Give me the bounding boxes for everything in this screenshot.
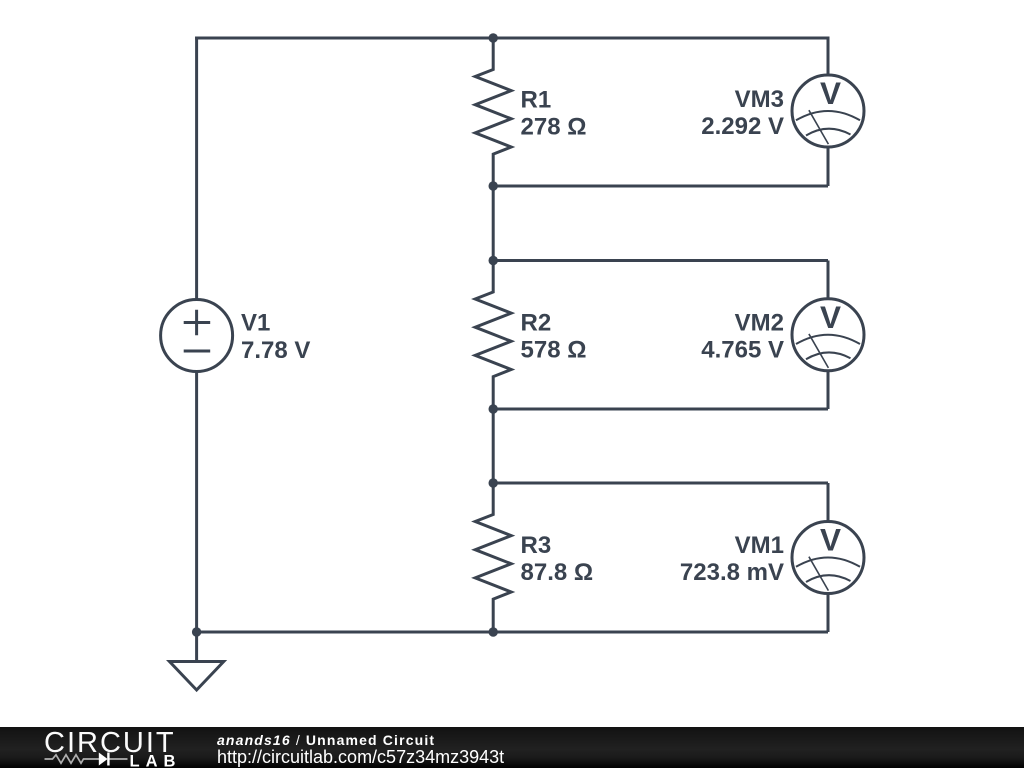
wire VM1 top horizontal: [493, 482, 828, 485]
svg-text:7.78 V: 7.78 V: [241, 337, 310, 364]
V1 minus sign: [184, 350, 211, 353]
svg-text:2.292 V: 2.292 V: [701, 113, 784, 140]
node B R1-VM3 junction: [489, 181, 498, 190]
voltmeter VM1 circle: [792, 522, 864, 594]
svg-text:R3: R3: [521, 532, 552, 559]
svg-text:R2: R2: [521, 310, 552, 337]
wire VM2 top horizontal: [493, 259, 828, 262]
svg-text:LAB: LAB: [130, 752, 182, 768]
logo diode: [99, 753, 110, 766]
wire left vertical lower: [195, 373, 198, 662]
wire VM1 branch verticals: [827, 483, 830, 632]
wire middle vertical R2-R3: [492, 409, 495, 483]
svg-text:578 Ω: 578 Ω: [521, 337, 587, 364]
node D R2-VM2 junction: [489, 404, 498, 413]
svg-text:V: V: [820, 75, 841, 111]
V1 plus sign: [184, 310, 211, 335]
ground symbol: [170, 662, 224, 691]
node E R3 top junction: [489, 478, 498, 487]
svg-text:VM3: VM3: [735, 86, 784, 113]
wire bottom horizontal: [197, 631, 828, 634]
node G ground junction: [192, 627, 201, 636]
svg-text:R1: R1: [521, 87, 552, 114]
wire VM3 bottom horizontal: [493, 185, 828, 188]
node F bottom junction: [489, 627, 498, 636]
svg-text:723.8 mV: 723.8 mV: [680, 559, 784, 586]
resistor R2 zigzag: [475, 261, 511, 410]
wire top horizontal: [195, 37, 828, 40]
voltmeter VM1 meter icon: [796, 557, 860, 591]
svg-text:VM2: VM2: [735, 310, 784, 337]
wire left vertical upper: [195, 37, 198, 299]
svg-text:V1: V1: [241, 310, 270, 337]
svg-text:V: V: [820, 522, 841, 558]
node A top junction: [489, 33, 498, 42]
resistor R3 zigzag: [475, 483, 511, 632]
voltage source V1 circle: [161, 300, 233, 372]
voltmeter VM3 meter icon: [796, 110, 860, 144]
svg-text:4.765 V: 4.765 V: [701, 337, 784, 364]
node C R2 top junction: [489, 256, 498, 265]
svg-text:278 Ω: 278 Ω: [521, 114, 587, 141]
voltmeter VM2 meter icon: [796, 334, 860, 368]
wire VM3 branch verticals: [827, 37, 830, 187]
voltmeter VM3 circle: [792, 75, 864, 147]
svg-text:87.8 Ω: 87.8 Ω: [521, 559, 594, 586]
resistor R1 zigzag: [475, 38, 511, 186]
svg-text:VM1: VM1: [735, 532, 784, 559]
wire VM2 branch verticals: [827, 261, 830, 410]
logo wire with resistor: [45, 755, 128, 763]
svg-text:V: V: [820, 299, 841, 335]
wire middle vertical R1-R2: [492, 186, 495, 261]
wire VM2 bottom horizontal: [493, 408, 828, 411]
footer bar: [0, 727, 1024, 768]
voltmeter VM2 circle: [792, 299, 864, 371]
